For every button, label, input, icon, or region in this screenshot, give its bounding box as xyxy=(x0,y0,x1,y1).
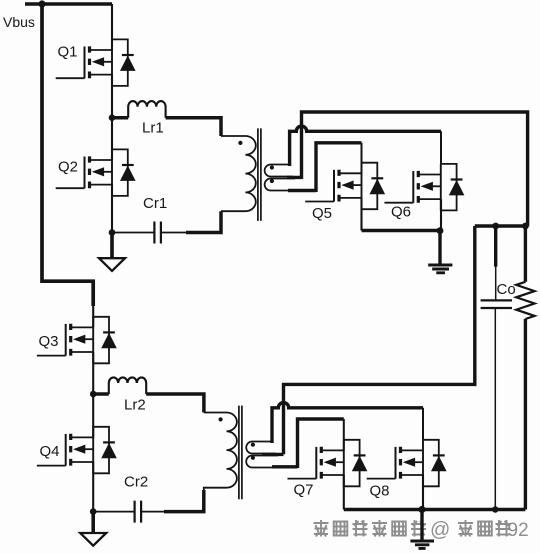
node junction dot Vbus tap xyxy=(38,0,45,7)
wire T1 center tap riser to output bus (wire 1) xyxy=(287,112,528,226)
svg-text:@: @ xyxy=(430,519,450,541)
transistor Q6 xyxy=(385,164,465,211)
svg-text:Q4: Q4 xyxy=(40,443,60,460)
node T1 primary phase dot xyxy=(238,141,242,145)
node T1 secondary winding 1 phase dot xyxy=(270,165,274,169)
wire node A to Lr1 xyxy=(112,116,128,120)
transformer T1 secondary winding 2 xyxy=(265,179,300,191)
transistor Q8 xyxy=(367,440,447,487)
transformer T1 primary winding xyxy=(221,136,256,211)
svg-text:Lr2: Lr2 xyxy=(124,397,146,414)
transformer T2 secondary winding 1 xyxy=(246,442,276,454)
inductor Lr2 xyxy=(109,377,146,394)
node A junction dot (Q1/Q2 midpoint) xyxy=(109,114,116,121)
transformer T1 secondary winding 1 xyxy=(265,165,293,177)
node SR rail ground junction dot xyxy=(437,227,444,234)
transformer T2 primary winding xyxy=(204,413,237,493)
resistor load xyxy=(516,226,534,510)
node return rail Co junction dot xyxy=(492,506,498,512)
wire top Vbus bus xyxy=(25,2,112,6)
svg-text:Q8: Q8 xyxy=(370,483,390,500)
ground earth below Q5/Q6 rail xyxy=(428,231,452,273)
wire Lr1 to transformer T1 primary top xyxy=(166,118,221,136)
node B junction dot (Q3/Q4 midpoint) xyxy=(90,391,97,398)
transistor Q2 xyxy=(56,149,136,196)
svg-text:Q7: Q7 xyxy=(294,482,314,499)
ground earth below Q7/Q8 rail xyxy=(410,510,434,549)
capacitor Co xyxy=(481,226,512,510)
wire SR source rail Q5-Q6 xyxy=(362,229,442,233)
wire Q5 source down to SR ground rail xyxy=(360,198,362,231)
wire Lr2 to transformer T2 primary top xyxy=(146,394,204,413)
watermark 掘金技术社区 @ 依依依92 xyxy=(314,520,511,537)
wire Vbus left trunk down to lower bridge xyxy=(42,2,93,306)
node T1 secondary winding 2 phase dot xyxy=(270,179,274,183)
node output bus dot at Co xyxy=(492,223,499,230)
ground chassis below Cr1 node xyxy=(99,233,125,271)
wire T1 sec w1 dot-end riser to Q6 (hops over center tap riser) xyxy=(290,126,441,166)
wire Q8 source down to output return rail xyxy=(422,475,424,510)
node T2 secondary winding 1 phase dot xyxy=(251,443,255,447)
wire Q1 source to half-bridge node A xyxy=(111,75,113,160)
ground chassis below Cr2 node xyxy=(80,512,106,546)
wire output return rail bottom xyxy=(344,508,526,512)
wire Q2 source down to Cr1 node xyxy=(111,185,113,233)
svg-text:92: 92 xyxy=(508,520,529,541)
wire Q7 source down to output return rail xyxy=(343,475,345,510)
wire Q4 source down to Cr2 node xyxy=(92,462,94,512)
capacitor Cr1 xyxy=(154,222,161,244)
wire Cr1 capacitor to T1 primary bottom xyxy=(161,232,187,234)
svg-text:Lr1: Lr1 xyxy=(142,120,164,137)
transistor Q4 xyxy=(37,427,117,474)
node Cr1 junction dot xyxy=(109,229,116,236)
wire Q3 drain riser xyxy=(92,304,94,327)
node T2 primary phase dot xyxy=(219,417,223,421)
capacitor Cr2 xyxy=(135,501,142,523)
wire node B to Lr2 xyxy=(93,392,109,396)
svg-text:Q3: Q3 xyxy=(39,333,59,350)
transistor Q5 xyxy=(305,163,385,210)
wire T2 center tap stub xyxy=(262,453,284,456)
wire output left rail down to T2 center tap xyxy=(284,226,475,454)
node Cr2 junction dot xyxy=(90,508,97,515)
wire Q6 source down to SR ground rail xyxy=(440,199,442,230)
transistor Q7 xyxy=(288,440,368,487)
wire T2 sec w1 dot-end riser to Q8 (hops over center tap riser) xyxy=(272,403,423,443)
inductor Lr1 xyxy=(128,101,165,118)
wire T2 sec w2 outer end riser to Q7 xyxy=(272,419,344,468)
transistor Q3 xyxy=(37,317,117,364)
svg-text:Q1: Q1 xyxy=(58,44,78,61)
node T2 secondary winding 2 phase dot xyxy=(251,456,255,460)
transformer T2 core xyxy=(239,406,242,500)
svg-text:Q5: Q5 xyxy=(312,205,332,222)
node output bus dot at load xyxy=(522,223,529,230)
svg-text:Vbus: Vbus xyxy=(3,14,35,30)
svg-text:Cr2: Cr2 xyxy=(124,474,148,491)
wire Q3 source to node B xyxy=(92,352,94,437)
node return rail ground junction dot xyxy=(418,506,425,513)
wire Cr2 node to capacitor xyxy=(93,511,134,513)
svg-text:Co: Co xyxy=(497,281,516,298)
wire T1 sec w2 outer end riser to Q5 (wire 3) xyxy=(288,143,362,192)
transformer T2 secondary winding 2 xyxy=(246,456,282,468)
svg-text:Q6: Q6 xyxy=(391,204,411,221)
transistor Q1 xyxy=(56,39,136,86)
wire Cr2 capacitor to T2 primary bottom xyxy=(141,511,165,513)
wire Cr1 node to capacitor xyxy=(112,232,154,234)
wire Q1 drain riser xyxy=(111,4,113,50)
svg-text:Q2: Q2 xyxy=(58,159,78,176)
wire output bus top xyxy=(475,224,528,227)
transformer T1 core xyxy=(258,128,261,221)
svg-text:Cr1: Cr1 xyxy=(143,195,167,212)
